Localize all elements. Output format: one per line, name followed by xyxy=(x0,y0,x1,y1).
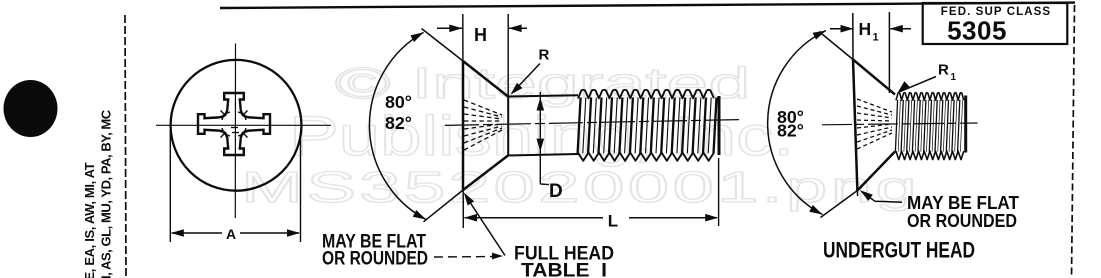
dim A line left part xyxy=(172,232,223,234)
mid thread flank lines xyxy=(578,98,581,154)
mid head face xyxy=(462,61,465,190)
dim H line right xyxy=(509,27,527,29)
front view head circle xyxy=(171,60,302,191)
R1 leader line xyxy=(900,77,937,92)
rt head face xyxy=(853,60,857,191)
mid axis centerline xyxy=(445,120,739,126)
dim A left extension line xyxy=(169,130,171,242)
rt may-be-flat leader xyxy=(862,192,903,203)
rt bottom slant extension xyxy=(821,191,858,218)
svg-text:OR ROUNDED: OR ROUNDED xyxy=(907,211,1017,231)
svg-text:OR ROUNDED: OR ROUNDED xyxy=(322,249,428,270)
mid angle arc xyxy=(369,32,426,219)
mid shank bottom line xyxy=(508,154,578,156)
svg-text:82°: 82° xyxy=(777,121,804,141)
svg-text:D: D xyxy=(549,181,563,202)
front view horizontal centerline xyxy=(156,124,331,126)
svg-text:MAY BE FLAT: MAY BE FLAT xyxy=(907,193,1019,213)
dim A line right part xyxy=(240,232,299,234)
dim D top arrowhead xyxy=(537,98,545,111)
svg-text:L: L xyxy=(608,212,618,231)
mid recess hidden-line fan xyxy=(464,100,502,115)
recess inner diagonals xyxy=(242,111,248,117)
rt thread bottom crests xyxy=(896,151,964,160)
svg-text:SH, AS, GL, MU, YD, PA, BY, MC: SH, AS, GL, MU, YD, PA, BY, MC xyxy=(99,109,114,278)
dim H1 line left xyxy=(830,28,853,30)
svg-text:UNDERGUT HEAD: UNDERGUT HEAD xyxy=(823,238,975,263)
rt thread flank lines xyxy=(895,100,897,152)
mid right extension line xyxy=(507,14,509,96)
svg-text:1: 1 xyxy=(951,72,957,83)
rt head bottom slant xyxy=(857,152,895,191)
dim L line right part xyxy=(629,217,717,219)
dim D foot xyxy=(540,183,549,186)
svg-text:1: 1 xyxy=(873,32,879,44)
rt screw end face xyxy=(964,96,967,153)
svg-text:H: H xyxy=(859,19,872,39)
svg-text:5305: 5305 xyxy=(947,16,1007,46)
dim L right extension line xyxy=(718,158,720,226)
dim A left arrowhead xyxy=(171,229,184,237)
svg-text:TABLE I: TABLE I xyxy=(521,261,607,278)
mid cone-shank junction line xyxy=(507,96,509,156)
punch hole xyxy=(4,80,58,137)
rt arc top arrowhead xyxy=(813,31,826,40)
phillips cross recess outline xyxy=(198,93,270,155)
dim D bottom arrowhead xyxy=(537,139,545,152)
dim H right arrowhead xyxy=(509,25,522,33)
dim H1 right arrowhead xyxy=(890,25,903,33)
mid dashed leader xyxy=(434,256,494,259)
right border line xyxy=(1072,5,1075,278)
rt right extension line xyxy=(888,12,890,93)
dim D line xyxy=(539,92,541,184)
mid thread bottom crests xyxy=(578,153,714,161)
recess center marks xyxy=(231,127,238,129)
dim H left arrowhead xyxy=(449,25,462,33)
mid shank top line xyxy=(508,95,578,96)
mid head bottom slant xyxy=(463,156,508,191)
rt may-be-flat arrowhead xyxy=(860,190,873,201)
rt angle arc xyxy=(768,31,826,215)
svg-text:R: R xyxy=(938,62,949,79)
dim L right arrowhead xyxy=(705,214,718,222)
R1 leader arrowhead xyxy=(898,81,910,93)
rt top slant extension xyxy=(819,32,853,60)
dim L left arrowhead xyxy=(464,214,477,222)
recess inner corner arcs xyxy=(238,112,246,120)
rt axis centerline xyxy=(822,123,978,125)
dim L line left part xyxy=(465,217,604,219)
mid bottom slant extension xyxy=(424,190,464,222)
svg-text:A: A xyxy=(226,226,236,242)
watermark line 2 xyxy=(289,108,794,164)
front view vertical centerline xyxy=(234,44,236,219)
rt arc bottom arrowhead xyxy=(809,205,822,215)
svg-text:80°: 80° xyxy=(385,92,412,112)
mid left extension+face+L-ext line xyxy=(462,14,465,228)
svg-text:R: R xyxy=(539,47,550,64)
rt face lower stub xyxy=(856,191,858,197)
mid thread top crests xyxy=(578,90,714,99)
dim A right extension line xyxy=(300,133,302,242)
mid arc bottom arrowhead xyxy=(413,210,426,220)
rt head top slant xyxy=(853,60,895,95)
dim H1 left arrowhead xyxy=(841,25,854,33)
mid dashed leader arrowhead xyxy=(492,253,503,260)
full head leader arrowhead xyxy=(464,193,474,206)
svg-text:H: H xyxy=(474,25,487,45)
dim H1 line right xyxy=(890,28,911,30)
mid top slant extension xyxy=(422,29,464,62)
full head leader line xyxy=(466,196,506,256)
R leader line xyxy=(513,64,541,93)
svg-text:82°: 82° xyxy=(385,113,412,133)
rt recess hidden-line fan xyxy=(857,99,892,112)
dim H line left xyxy=(437,27,462,29)
R leader arrowhead xyxy=(511,83,523,95)
left margin dashed line xyxy=(125,15,126,278)
rt thread top crests xyxy=(896,93,964,101)
top border line xyxy=(220,3,1075,8)
fed sup class box xyxy=(923,3,1068,44)
watermark line 3 xyxy=(241,166,920,210)
svg-text:ME, EA, IS, AW, MI, AT: ME, EA, IS, AW, MI, AT xyxy=(82,162,97,278)
mid screw end face xyxy=(718,96,721,155)
dim A right arrowhead xyxy=(287,229,300,237)
mid arc top arrowhead xyxy=(410,32,423,42)
watermark line 1 xyxy=(335,62,750,106)
rt H1 left extension line xyxy=(852,13,854,60)
mid head top slant xyxy=(463,61,508,97)
